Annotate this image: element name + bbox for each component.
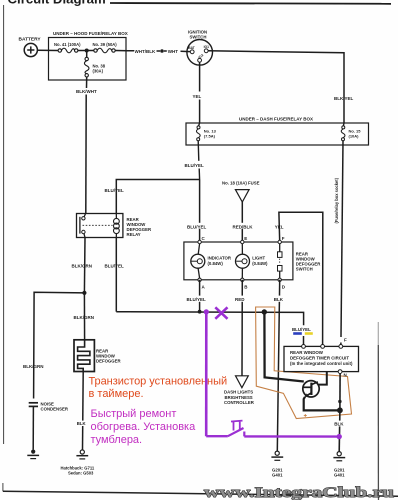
noise condenser C1 — [29, 402, 38, 404]
wire fuse15 down to timer F — [341, 141, 343, 337]
node + branch to noise condenser — [82, 291, 86, 295]
svg-text:BLU/YEL: BLU/YEL — [105, 264, 125, 269]
svg-text:G401: G401 — [272, 472, 283, 477]
svg-text:тумблера.: тумблера. — [91, 434, 143, 446]
fuse No.39 (50A) — [94, 48, 115, 53]
bottom rule — [3, 491, 398, 496]
orange annotation loop — [256, 307, 352, 419]
svg-text:F: F — [282, 236, 285, 241]
svg-text:BLU/YEL: BLU/YEL — [187, 297, 207, 302]
svg-text:YEL: YEL — [193, 94, 202, 99]
YEL wire from F up over to timer — [279, 212, 323, 346]
under-hood fuse/relay box — [49, 38, 127, 81]
svg-text:N: N — [344, 373, 347, 378]
dash lights brightness controller — [236, 376, 249, 388]
svg-text:G401: G401 — [334, 472, 345, 477]
svg-text:BLU/YEL: BLU/YEL — [105, 188, 125, 193]
wire D down to ground, BLK — [277, 280, 279, 451]
battery B1 — [24, 43, 37, 56]
scan artifact line — [377, 322, 379, 345]
svg-text:WHT: WHT — [168, 49, 178, 54]
wire fuse13 out, BLU/YEL — [197, 141, 200, 161]
relay coil — [115, 214, 117, 219]
svg-text:в таймере.: в таймере. — [89, 388, 144, 400]
svg-text:BLK/GRN: BLK/GRN — [74, 315, 95, 320]
svg-text:RED: RED — [235, 297, 245, 302]
svg-text:(10A): (10A) — [349, 133, 360, 138]
svg-text:No. 39 (50A): No. 39 (50A) — [93, 42, 118, 47]
fuse No.15 (10A) — [342, 123, 345, 126]
rear window defogger switch box — [184, 242, 293, 280]
ground G (noise condenser) — [31, 450, 35, 454]
wire + node at fuse38 tap — [78, 50, 94, 52]
svg-text:UNDER – DASH FUSE/RELAY BOX: UNDER – DASH FUSE/RELAY BOX — [239, 117, 313, 122]
svg-text:CONDENSER: CONDENSER — [41, 406, 69, 411]
svg-text:(Fuse/relay box socket): (Fuse/relay box socket) — [334, 177, 339, 223]
rear window defogger element — [74, 340, 94, 372]
indicator bulb — [198, 244, 199, 255]
wire B down to brightness controller, RED — [241, 280, 243, 376]
svg-text:BLK/WHT: BLK/WHT — [76, 89, 97, 94]
wire IG1 right then down to under-dash box — [208, 51, 344, 123]
BLU/YEL bus horizontal — [116, 312, 303, 326]
svg-text:BATTERY: BATTERY — [19, 37, 42, 43]
wire defogger down to ground — [82, 372, 85, 450]
svg-text:No. 41 (100A): No. 41 (100A) — [54, 42, 81, 47]
switch contacts — [279, 244, 281, 252]
svg-text:IG1: IG1 — [204, 45, 209, 49]
svg-text:DEFOGGER: DEFOGGER — [96, 358, 121, 363]
labels above switch — [187, 223, 208, 229]
title rule — [110, 2, 391, 5]
fuse No.38 (30A) vertical — [86, 51, 88, 58]
wire IG2 down, YEL — [199, 62, 201, 91]
svg-text:SWITCH: SWITCH — [296, 266, 313, 271]
wire out of box to ignition: WHT/BLK - dot - WHT — [115, 50, 134, 52]
page left border — [3, 5, 5, 444]
svg-text:BLU/YEL: BLU/YEL — [292, 327, 311, 332]
svg-text:E: E — [244, 236, 247, 241]
svg-text:BAT: BAT — [188, 46, 195, 50]
wire node down to defogger — [83, 293, 85, 340]
svg-text:UNDER – HOOD FUSE/RELAY BOX: UNDER – HOOD FUSE/RELAY BOX — [53, 31, 128, 36]
svg-text:BLK: BLK — [77, 421, 87, 426]
svg-text:(In the integrated control uni: (In the integrated control unit) — [290, 361, 353, 366]
collector wire to timer box — [318, 372, 327, 385]
under-dash fuse/relay box — [186, 123, 369, 145]
svg-text:Circuit Diagram: Circuit Diagram — [8, 0, 106, 7]
grounds bottom right — [275, 451, 279, 455]
fuse No.41 (100A) — [58, 48, 78, 53]
fuse No.13 (7.5A) — [199, 123, 200, 126]
svg-text:BLK/GRN: BLK/GRN — [72, 264, 93, 269]
wire fuse38 down + BLK/WHT label — [86, 77, 88, 88]
svg-text:BLU/YEL: BLU/YEL — [185, 163, 205, 168]
relay dashed link — [83, 224, 113, 226]
wires below relay — [83, 238, 86, 293]
svg-text:DEFOGGER TIMER CIRCUIT: DEFOGGER TIMER CIRCUIT — [290, 356, 349, 361]
svg-text:(7.5A): (7.5A) — [204, 133, 216, 138]
svg-text:Sedan: G503: Sedan: G503 — [68, 471, 94, 476]
svg-text:SWITCH: SWITCH — [190, 35, 207, 40]
wire A down to bus — [199, 280, 201, 312]
svg-text:обогрева. Установка: обогрева. Установка — [91, 421, 197, 433]
svg-text:BLK/GRN: BLK/GRN — [23, 364, 44, 369]
svg-text:No. 18 (10A) FUSE: No. 18 (10A) FUSE — [222, 181, 260, 186]
svg-text:RED/BLK: RED/BLK — [233, 224, 254, 229]
terminals on box — [198, 240, 281, 281]
rear window defogger relay — [77, 214, 123, 238]
light bulb — [241, 244, 243, 255]
orange plus mark — [304, 414, 307, 417]
magenta mod: tap with X — [215, 307, 227, 319]
svg-text:(0.84W): (0.84W) — [252, 261, 268, 266]
wire branch to relay coil — [116, 180, 199, 214]
BLU/YEL label with color bars at timer input — [292, 326, 315, 337]
svg-text:BLK: BLK — [334, 422, 344, 427]
transistor Q1 — [303, 381, 319, 397]
svg-text:www.IntegraClub.ru: www.IntegraClub.ru — [204, 485, 394, 500]
thick wire node down to transistor base — [264, 312, 303, 382]
svg-text:WHT/BLK: WHT/BLK — [135, 49, 156, 54]
svg-text:REAR WINDOW: REAR WINDOW — [290, 350, 324, 355]
svg-text:BLK/YEL: BLK/YEL — [334, 96, 354, 101]
emitter wire loop — [304, 397, 340, 411]
svg-text:(30A): (30A) — [93, 69, 104, 74]
N wire down — [339, 374, 341, 411]
svg-text:F: F — [344, 338, 347, 343]
svg-text:(0.84W): (0.84W) — [208, 261, 224, 266]
svg-text:BLU/YEL: BLU/YEL — [187, 224, 207, 229]
wire battery to under-hood box — [37, 49, 58, 51]
node big dot — [262, 309, 267, 314]
svg-text:RELAY: RELAY — [127, 232, 141, 237]
ground (defogger) — [80, 450, 84, 454]
relay contact — [84, 214, 85, 217]
svg-text:Быстрый ремонт: Быстрый ремонт — [91, 408, 177, 420]
svg-text:BLK: BLK — [274, 297, 284, 302]
rear window defogger timer circuit box — [284, 346, 359, 371]
svg-text:CONTROLLER: CONTROLLER — [224, 400, 255, 405]
magenta toggle switch — [206, 435, 228, 437]
